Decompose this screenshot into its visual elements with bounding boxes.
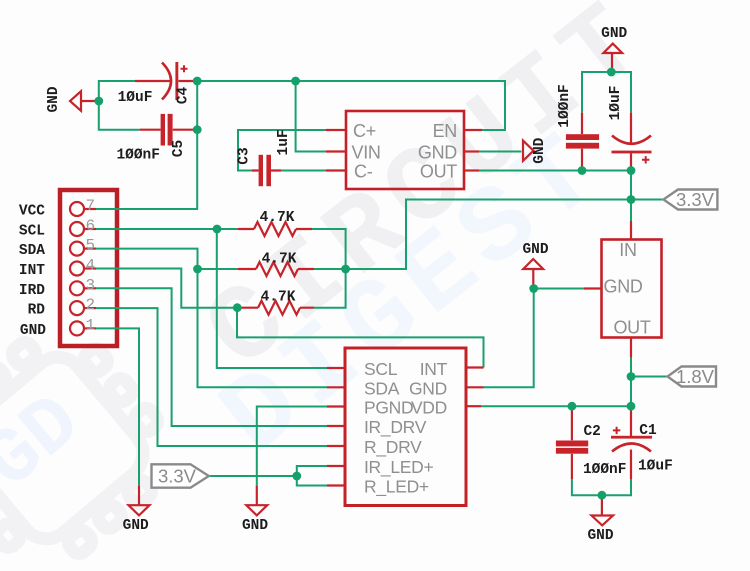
charge-pump C- stub (326, 169, 346, 171)
wire pull-up right bus (312, 229, 346, 308)
wire VCC pin7 to top rail (96, 81, 197, 209)
pin 2 circle (70, 301, 84, 315)
ground flag right (523, 141, 534, 161)
svg-text:VDD: VDD (411, 397, 447, 417)
resistor R2 leads (238, 268, 314, 270)
capacitor C4 plus sign (181, 65, 188, 72)
IC VDD stub (466, 405, 481, 407)
IC IR_LED+ stub (327, 465, 345, 467)
IC SCL stub (327, 367, 345, 369)
capacitor C5 plates (161, 114, 173, 146)
capacitor C3 leads (252, 169, 281, 171)
pin 1 stub (84, 327, 96, 329)
ground symbol mid (523, 259, 543, 269)
IC PGND stub (327, 405, 345, 407)
svg-text:7: 7 (86, 197, 96, 215)
junction 1.8V (627, 372, 636, 381)
resistor R2 zigzag (256, 262, 298, 276)
svg-text:SCL: SCL (19, 224, 45, 240)
net flag 3.3V bottom (152, 464, 209, 487)
resistor R1 zigzag (254, 222, 296, 236)
svg-text:4.7K: 4.7K (262, 252, 297, 268)
svg-text:3: 3 (86, 276, 96, 294)
pin 4 stub (84, 267, 96, 269)
ground flag left (70, 91, 81, 111)
wire GND pin1 down (96, 328, 139, 486)
wire RD pin2 to R_DRV (96, 308, 327, 446)
junction led supply (292, 472, 301, 481)
svg-text:GND: GND (123, 518, 149, 534)
junction rail VIN (291, 77, 300, 86)
capacitor 100nF top plates (566, 134, 599, 148)
regulator OUT stub (630, 338, 632, 358)
regulator GND stub (584, 287, 602, 289)
ground arrow pgnd (246, 505, 267, 515)
IC R_LED+ stub (327, 484, 345, 486)
svg-text:C2: C2 (583, 424, 600, 440)
regulator IN stub (630, 221, 632, 240)
svg-text:C1: C1 (639, 423, 657, 439)
wire C3 to C- (281, 170, 326, 172)
svg-text:4.7K: 4.7K (260, 210, 295, 226)
capacitor C2 plates (556, 441, 588, 454)
IC R_DRV stub (327, 445, 345, 447)
svg-text:6: 6 (86, 217, 96, 235)
junction top gnd (607, 68, 616, 77)
wire OUT 3.3V rail (479, 170, 631, 172)
svg-text:GND: GND (522, 242, 548, 258)
svg-text:1uF: 1uF (276, 129, 292, 155)
junction C4 right (193, 77, 202, 86)
ground symbol mid stem (532, 269, 534, 289)
svg-text:1.8V: 1.8V (676, 366, 715, 387)
wire PGND down to ground (257, 407, 327, 487)
wire 3.3V flag rail (314, 200, 664, 270)
svg-text:1ØuF: 1ØuF (638, 459, 673, 475)
ground left stub (81, 100, 99, 102)
svg-text:1: 1 (86, 316, 96, 334)
capacitor C4 arc plate (162, 63, 171, 100)
pin 2 stub (84, 307, 96, 309)
wire 3.3V bottom flag (209, 475, 297, 477)
resistor R3 zigzag (258, 301, 300, 315)
pin 3 circle (70, 281, 84, 295)
capacitor 100nF top leads (581, 113, 583, 171)
svg-text:PGND: PGND (364, 397, 413, 417)
junction 100nF out (578, 166, 587, 175)
wire regulator OUT down to VDD rail (630, 358, 632, 407)
svg-text:1ØØnF: 1ØØnF (583, 462, 627, 478)
junction SDA R2 (193, 265, 202, 274)
capacitor 10uF top plus sign (642, 156, 649, 163)
svg-text:INT: INT (19, 263, 45, 279)
svg-text:IRD: IRD (19, 283, 45, 299)
wire rail to VIN (296, 81, 326, 152)
watermark chip logo (0, 307, 193, 571)
pin 6 stub (84, 228, 96, 230)
junction SCL R1 (213, 225, 222, 234)
capacitor C4 leads (135, 80, 197, 82)
svg-text:3.3V: 3.3V (676, 189, 715, 210)
wire SDA pin5 down to IC (96, 249, 327, 388)
capacitor 10uF top arc plate (612, 136, 651, 144)
capacitor C1 leads (630, 406, 632, 479)
pin 6 circle (70, 222, 84, 236)
svg-text:OUT: OUT (613, 318, 650, 338)
wire GND node to C4 and C5 (99, 81, 140, 130)
svg-text:IN: IN (619, 240, 636, 260)
wire SCL down to IC (217, 229, 327, 368)
charge-pump EN stub (464, 129, 482, 131)
svg-text:SCL: SCL (364, 359, 398, 379)
wire INT pin4 to R3 (96, 269, 238, 308)
ground arrow caps stem (601, 495, 603, 515)
capacitor C1 bar plate (611, 436, 652, 439)
svg-text:IR_DRV: IR_DRV (364, 417, 427, 438)
charge-pump VIN stub (326, 150, 346, 152)
svg-text:1ØØnF: 1ØØnF (116, 147, 160, 163)
junction 3.3V rail (627, 195, 636, 204)
wire IC GND to regulator GND (484, 289, 585, 388)
IC GND stub (466, 386, 484, 388)
svg-text:VIN: VIN (352, 142, 381, 162)
ground arrow pin1 stem (138, 486, 140, 505)
svg-text:4.7K: 4.7K (261, 290, 296, 306)
ground arrow pin1 (129, 505, 150, 515)
wire SDA tap to R2 (198, 268, 239, 270)
svg-text:3.3V: 3.3V (158, 466, 197, 487)
pin 5 stub (84, 248, 96, 250)
wire OUT rail down to regulator IN (630, 171, 632, 222)
charge-pump OUT stub (464, 169, 479, 171)
charge-pump C+ stub (326, 129, 346, 131)
wire charge-pump GND to flag (479, 151, 521, 153)
IC INT stub (466, 366, 484, 368)
capacitor C1 plus sign (613, 427, 620, 434)
junction C5 right (193, 125, 202, 134)
junction INT R3 (233, 303, 242, 312)
ground symbol top (603, 44, 622, 53)
pin 7 circle (70, 202, 84, 216)
IC IR_DRV stub (327, 425, 345, 427)
junction reg gnd (529, 284, 538, 293)
svg-text:C4: C4 (176, 87, 192, 105)
capacitor 10uF top leads (630, 113, 632, 171)
resistor R3 leads (240, 307, 314, 309)
capacitor 10uF top bar plate (612, 151, 652, 154)
wire C2 C1 bottom (572, 479, 631, 495)
junction caps gnd (598, 491, 607, 500)
wire INT down to IC (237, 308, 484, 368)
sensor IC U1 body (345, 348, 466, 506)
svg-text:VCC: VCC (19, 204, 45, 220)
wire VDD rail (481, 405, 631, 407)
svg-text:C5: C5 (171, 140, 187, 157)
svg-text:C3: C3 (237, 147, 253, 164)
capacitor C1 arc plate (612, 444, 651, 452)
svg-text:R_LED+: R_LED+ (364, 476, 429, 497)
charge-pump U2 body (346, 111, 464, 189)
connector J1 body (60, 190, 117, 346)
svg-text:4: 4 (86, 257, 96, 275)
svg-text:GND: GND (46, 86, 62, 112)
pin 4 circle (70, 262, 84, 276)
svg-text:GND: GND (418, 142, 457, 162)
regulator U3 body (602, 240, 662, 338)
svg-text:2: 2 (86, 296, 96, 314)
ground arrow pgnd stem (256, 486, 258, 505)
svg-text:GND: GND (242, 518, 268, 534)
svg-text:GND: GND (20, 323, 46, 339)
svg-text:1ØØnF: 1ØØnF (557, 84, 573, 128)
wire SCL pin6 to R1 (96, 228, 238, 230)
svg-text:OUT: OUT (420, 161, 457, 181)
svg-text:GND: GND (587, 528, 613, 544)
svg-text:IR_LED+: IR_LED+ (364, 457, 433, 478)
svg-text:GND: GND (532, 137, 548, 163)
junction C1 top (627, 402, 636, 411)
wire IRD pin3 to IR_DRV (96, 288, 327, 426)
svg-text:INT: INT (420, 359, 448, 379)
svg-text:C-: C- (354, 161, 373, 181)
capacitor C4 bar plate (175, 62, 178, 100)
svg-text:RD: RD (28, 303, 46, 319)
svg-text:GND: GND (604, 276, 643, 296)
wire top rail to EN (197, 81, 505, 130)
pin 1 circle (70, 321, 84, 335)
svg-text:R_DRV: R_DRV (364, 437, 422, 458)
svg-text:EN: EN (433, 121, 457, 141)
svg-text:5: 5 (86, 237, 96, 255)
wire junction to 1.8V flag (631, 376, 668, 378)
charge-pump GND stub (464, 150, 479, 152)
svg-text:SDA: SDA (364, 378, 400, 398)
wire top caps to GND (582, 72, 631, 113)
capacitor C3 plates (259, 155, 271, 186)
junction pullup bus (341, 265, 350, 274)
svg-text:SDA: SDA (19, 243, 45, 259)
IC SDA stub (327, 386, 345, 388)
junction 10uF out (627, 166, 636, 175)
net flag 1.8V (668, 367, 717, 387)
capacitor C5 leads (140, 129, 197, 131)
pin 3 stub (84, 287, 96, 289)
wire C+ loop via C3 (238, 130, 326, 171)
ground arrow caps (592, 516, 614, 526)
resistor R1 leads (238, 228, 312, 230)
junction C2 top (568, 402, 577, 411)
svg-text:GND: GND (601, 26, 627, 42)
svg-text:GND: GND (409, 378, 447, 398)
net flag 3.3V right (664, 190, 718, 210)
svg-text:C+: C+ (353, 121, 376, 141)
svg-text:1ØuF: 1ØuF (608, 86, 624, 121)
junction gnd-left (94, 97, 103, 106)
wire LED supply split (297, 466, 327, 486)
pin 5 circle (70, 242, 84, 256)
capacitor C2 leads (571, 406, 573, 479)
svg-text:1ØuF: 1ØuF (118, 90, 153, 106)
pin 7 stub (84, 208, 96, 210)
ground symbol top stem (611, 53, 613, 72)
